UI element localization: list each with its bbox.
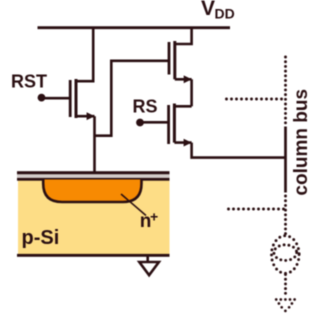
svg-text:RS: RS (133, 97, 158, 117)
svg-text:V: V (201, 0, 215, 20)
svg-text:p-Si: p-Si (22, 227, 60, 249)
svg-text:column bus: column bus (291, 89, 312, 196)
svg-text:DD: DD (215, 6, 235, 22)
svg-text:+: + (150, 209, 158, 225)
svg-text:RST: RST (11, 72, 47, 92)
